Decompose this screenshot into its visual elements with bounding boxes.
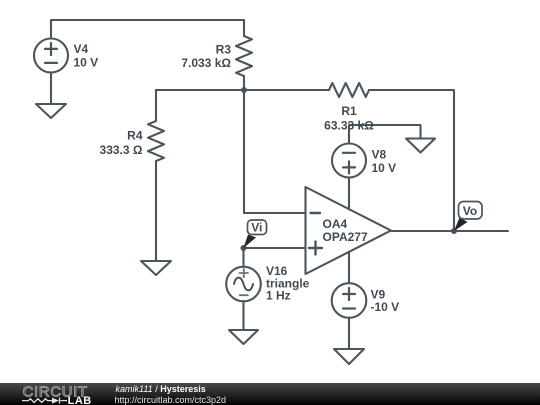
node junction summing node	[241, 87, 247, 93]
svg-text:R1: R1	[341, 104, 357, 118]
node Vo junction	[451, 228, 457, 234]
footer bar	[0, 383, 540, 405]
svg-text:OPA277: OPA277	[323, 230, 368, 244]
voltage source V9	[332, 283, 367, 318]
wire R1 right end to output column	[369, 90, 454, 231]
label Vi callout	[244, 220, 267, 248]
wire summing node horizontal left to R4	[156, 89, 244, 91]
wire V16 top lead	[242, 248, 244, 267]
wire feedback node to inverting input	[244, 90, 306, 213]
svg-text:333.3 Ω: 333.3 Ω	[100, 143, 143, 157]
wire top rail from V4 to R3	[51, 20, 244, 39]
resistor R3	[236, 36, 252, 90]
wire V8 top to ground net	[349, 125, 421, 144]
ground below V4	[36, 104, 66, 118]
wire V9 bottom lead	[348, 318, 350, 349]
svg-text:Vo: Vo	[463, 204, 477, 218]
svg-text:V4: V4	[74, 42, 89, 56]
svg-text:-10 V: -10 V	[371, 300, 400, 314]
wire noninverting input	[244, 247, 306, 249]
voltage source V8	[332, 144, 366, 178]
ground below V16	[229, 330, 258, 344]
svg-text:R4: R4	[127, 129, 143, 143]
CircuitLab logo	[0, 383, 110, 405]
svg-text:7.033 kΩ: 7.033 kΩ	[181, 56, 231, 70]
wire V4 negative lead	[50, 73, 52, 105]
svg-text:Vi: Vi	[251, 221, 262, 235]
wire output	[391, 230, 508, 232]
wire V16 bottom lead	[242, 301, 244, 330]
svg-text:LAB: LAB	[68, 395, 92, 405]
node Vi junction	[241, 245, 247, 251]
resistor R1	[329, 83, 369, 97]
svg-text:OA4: OA4	[323, 217, 348, 231]
svg-text:V8: V8	[372, 148, 387, 162]
voltage source V16	[226, 267, 261, 302]
svg-text:10 V: 10 V	[372, 161, 397, 175]
footer text	[116, 384, 206, 394]
wire V8 to op-amp positive supply	[348, 178, 350, 210]
svg-text:1 Hz: 1 Hz	[266, 289, 291, 303]
ground below V9	[334, 349, 364, 364]
voltage source V4	[34, 39, 68, 73]
wire op-amp negative supply to V9	[348, 252, 350, 284]
op-amp OA4	[306, 187, 392, 274]
resistor R4	[148, 90, 164, 261]
svg-text:10 V: 10 V	[74, 56, 99, 70]
ground below R4	[141, 261, 171, 275]
svg-text:63.33 kΩ: 63.33 kΩ	[324, 119, 374, 133]
label Vo callout	[454, 202, 482, 232]
wire summing node horizontal right to R1	[244, 89, 329, 91]
svg-text:R3: R3	[216, 43, 232, 57]
ground right of V8	[406, 139, 435, 153]
